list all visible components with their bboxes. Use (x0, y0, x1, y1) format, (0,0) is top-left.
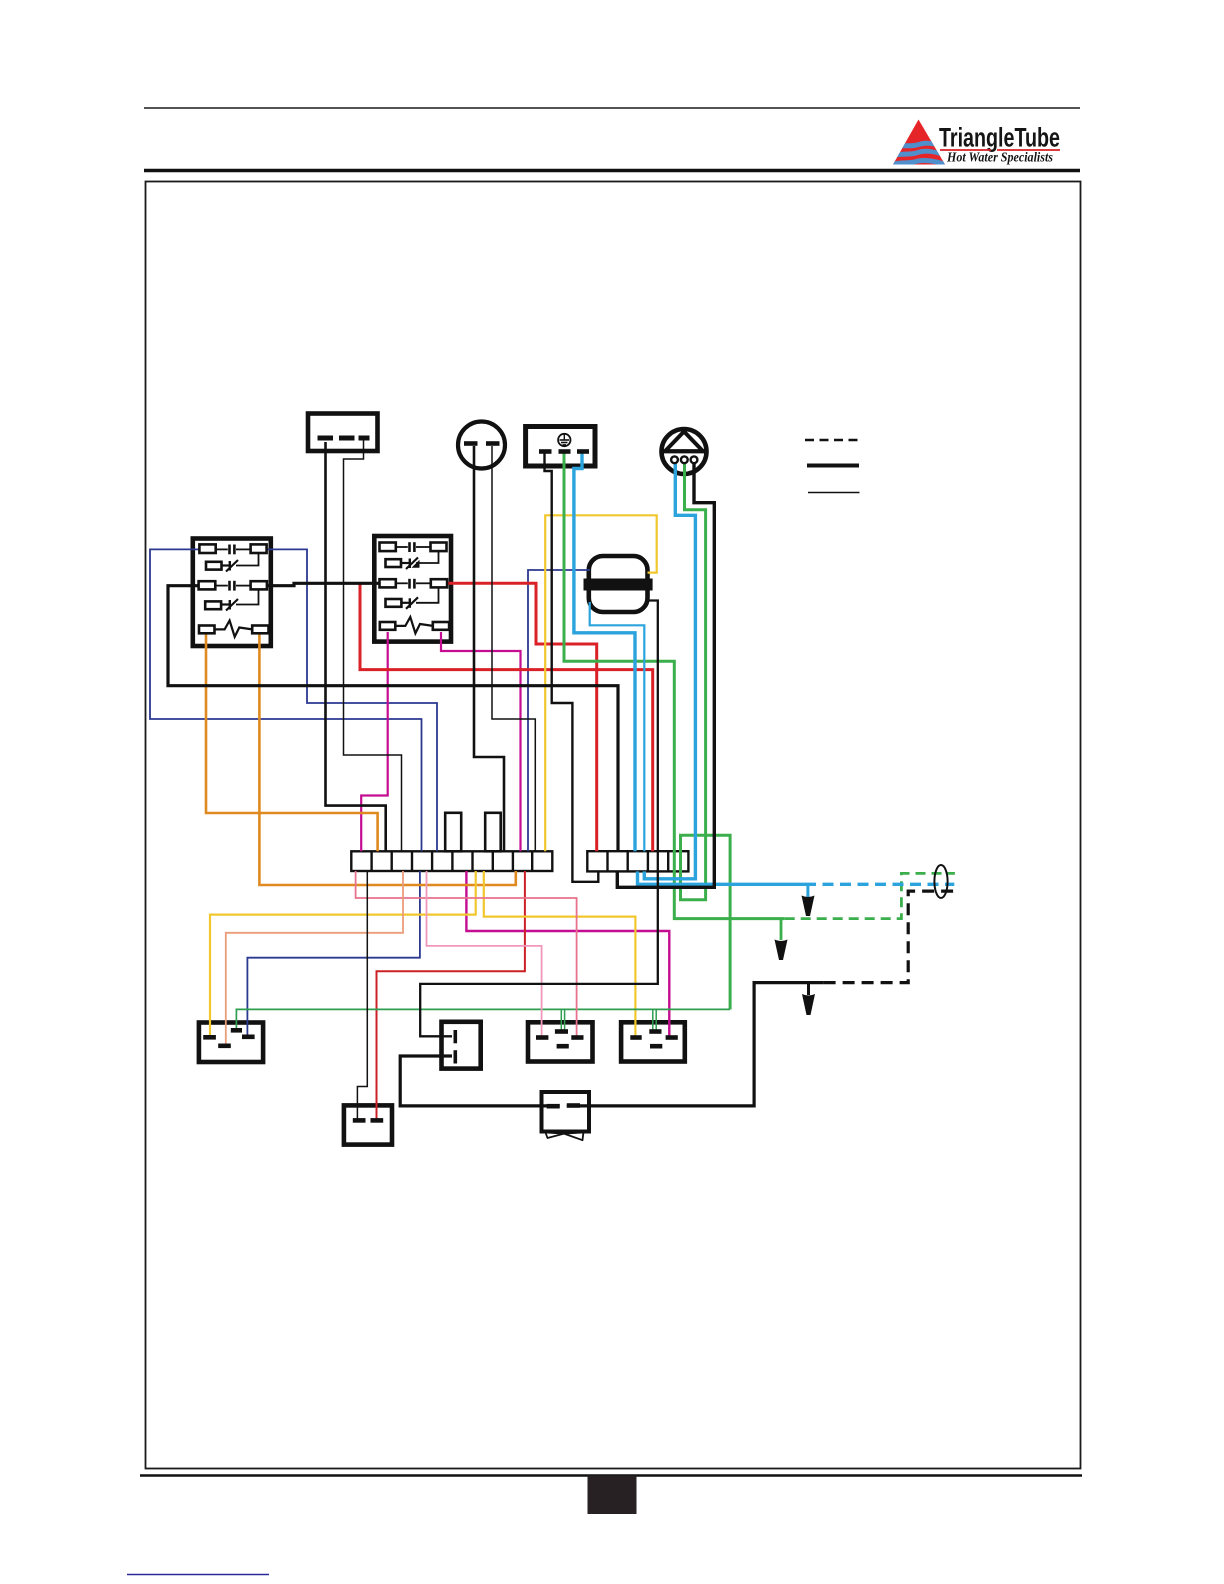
zone valve box ZV1 (bottom left) (199, 1023, 263, 1063)
wire red K2 feed to TS2-4 (360, 585, 653, 852)
ground terminal box (526, 427, 595, 467)
wire magenta TS1-6 to ZV3 right (466, 871, 669, 1036)
field wiring arrow (black line) (802, 994, 815, 1015)
aquastat terminal bars (453, 1030, 457, 1064)
terminal strip TS2 (right, 5 poles) (587, 851, 688, 871)
thermostat circle (458, 422, 505, 469)
zone valve box ZV3 (621, 1022, 685, 1061)
wire green pump loop (681, 461, 731, 1009)
wire navy K1 row1 to TS1-5 (267, 549, 437, 851)
wire navy TS1-4 to ZV1 right (247, 871, 420, 1035)
wire green common run to ZV1 (236, 1009, 730, 1029)
relay K2 box (374, 536, 451, 642)
diagram border frame (146, 182, 1081, 1469)
wire blue stub to arrow (806, 884, 809, 897)
legend thick line (807, 464, 859, 468)
ZV3 terminal dashes (630, 1032, 678, 1047)
wire black thermostat right to TS1-10 (492, 446, 535, 851)
ground box terminals + ground symbol (539, 434, 589, 452)
terminal strip TS1 (left, 10 poles) (351, 851, 552, 871)
terminal box TB1 (top) (308, 414, 378, 452)
wire black aquastat lower to transformer (400, 1056, 560, 1106)
wire navy left drop to TS1-4 (150, 549, 422, 852)
transformer terminal dashes (547, 1103, 580, 1108)
wire black TS1-1 to switch box (357, 871, 367, 1119)
wire black TB1 left to TS1-2 (326, 442, 386, 851)
wire black dashed field run (824, 891, 955, 983)
zone valve box ZV2 (528, 1022, 593, 1061)
wire black stub to arrow (807, 983, 810, 995)
capacitor / motor start device (584, 556, 653, 612)
svg-text:Hot Water Specialists: Hot Water Specialists (946, 150, 1053, 165)
svg-text:TriangleTube: TriangleTube (939, 123, 1060, 153)
wire blue capacitor to TS2-3 (590, 602, 645, 851)
wire blue TS2-3 to field (dashed end) (638, 871, 806, 884)
header bottom thick rule (144, 169, 1080, 173)
wire yellow capacitor right to TS1-10 (545, 515, 657, 851)
wire green stub to arrow (780, 919, 783, 940)
wire rose TS1-1 to ZV2 right (356, 871, 577, 1036)
relay K2 internals (380, 542, 450, 633)
header top rule (144, 107, 1080, 109)
field wiring arrow (green line) (775, 940, 788, 961)
wire blue ground box to TS2-3 (574, 453, 635, 851)
wire navy K1 row1 feed (150, 548, 199, 550)
wire black K1 row3 bus to TS2-2 (168, 586, 618, 852)
wire red TS1-9 to switch box (377, 871, 525, 1119)
legend thin line (808, 492, 860, 494)
footer page-number block (588, 1476, 637, 1515)
wire yellow TS1-7 to ZV1 left (210, 871, 476, 1036)
logo wordmark (939, 123, 1060, 165)
wire black K1 row3 to K2 row3 (267, 583, 380, 585)
footer link underline (127, 1574, 269, 1576)
TB1 terminal dashes (318, 436, 370, 441)
wire navy capacitor left (528, 570, 590, 851)
relay K1 box (193, 539, 271, 647)
wire black transformer to field (solid) (567, 983, 824, 1106)
wire salmon TS1-3 to ZV1 center (226, 871, 403, 1044)
wire green ground box to field (dashed end) (564, 453, 785, 919)
wire green stub ZV2 (560, 1009, 562, 1030)
logo triangle (886, 120, 948, 170)
wire black ground box to TS2-1 bottom (545, 453, 599, 882)
switch box terminal dashes (353, 1118, 383, 1123)
TS1 riser block B (485, 813, 501, 852)
TS1 riser block A (445, 813, 461, 852)
field wiring arrow (blue line) (802, 896, 815, 917)
wire black capacitor to aquastat upper (420, 601, 658, 1037)
wire black TB1 right to TS1-3 (344, 440, 402, 851)
footer rule (140, 1474, 1082, 1476)
wire black thermostat left to TS1-8 (474, 446, 504, 851)
wire magenta K2 coil left to TS1-1 (361, 632, 388, 851)
wire black pump to TS2-2 bottom (617, 461, 714, 887)
wire blue pump to TS2-3 (644, 461, 695, 879)
wire orange K1 coil right to TS1-9 bottom (259, 632, 515, 885)
relay K1 internals (199, 544, 269, 636)
switch box (bottom) (344, 1105, 392, 1144)
ZV2 terminal dashes (536, 1032, 584, 1047)
thermostat terminals (464, 441, 500, 446)
wire yellow TS1-7 to ZV3 left (484, 871, 636, 1036)
wire magenta K2 coil right to TS1-9 (441, 632, 521, 851)
pump terminal pins (671, 456, 697, 463)
ZV1 terminal dashes (203, 1030, 254, 1046)
transformer box (542, 1092, 590, 1140)
wire orange K1 coil left to TS1-2 (206, 632, 378, 851)
legend dashed line (805, 439, 858, 442)
wire green stub ZV3 (652, 1009, 654, 1030)
aquastat box (vertical, two poles) (442, 1022, 481, 1069)
pump circle (662, 429, 707, 474)
cable bundle ellipse (934, 865, 947, 898)
wire pink TS1-4 to ZV2 left (427, 871, 542, 1036)
wire red K2 row3 to TS2-1 (447, 583, 597, 851)
